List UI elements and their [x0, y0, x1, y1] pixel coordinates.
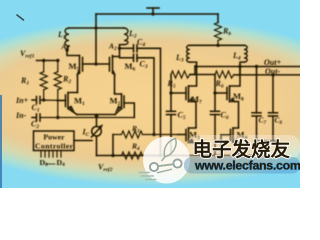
node Rb tap	[216, 44, 219, 47]
node R1 top	[42, 59, 45, 62]
wire cap ground drop	[264, 141, 266, 156]
inductor L2	[120, 28, 129, 48]
node tail	[95, 114, 99, 118]
wire current source to Vref2 node	[96, 137, 98, 156]
capacitor C7	[252, 67, 261, 142]
svg-text:In+: In+	[15, 96, 29, 105]
resistor R4	[113, 152, 221, 159]
node A2	[118, 47, 121, 50]
capacitor C8	[269, 75, 278, 141]
wire source bar	[77, 114, 115, 116]
capacitor C5	[167, 93, 176, 156]
svg-text:Power: Power	[43, 133, 65, 142]
node junction rail/bar	[94, 26, 97, 29]
svg-text:Out-: Out-	[265, 67, 280, 76]
transistor M7	[171, 67, 197, 128]
capacitor C4	[120, 45, 161, 156]
resistor R6	[215, 71, 234, 78]
wire R5 right to Out	[190, 67, 195, 75]
node cascode gate bias	[94, 62, 97, 65]
node M8 drain	[238, 65, 241, 68]
wire Out+ line	[195, 66, 300, 68]
wire Rb drop	[217, 14, 219, 23]
transistor M1	[57, 93, 78, 115]
wire Vref2 riser	[112, 135, 114, 156]
inductor L4	[240, 45, 247, 66]
node C8 tap	[271, 73, 274, 76]
resistor Rb	[215, 23, 222, 46]
wire D control lines	[41, 151, 61, 158]
watermark logo circle	[139, 137, 191, 184]
wire Out- line	[234, 74, 300, 76]
left edge artifact	[0, 95, 2, 188]
wire tail to current source	[96, 115, 98, 127]
capacitor C1	[32, 97, 66, 104]
node M7 gate	[169, 91, 172, 94]
resistor R3	[113, 131, 178, 138]
scratch artifact	[17, 15, 24, 20]
svg-text:In-: In-	[15, 111, 27, 120]
capacitor C3	[120, 54, 155, 134]
svg-text:Controller: Controller	[35, 142, 74, 151]
inductor L1	[65, 28, 69, 50]
node C4 tap	[159, 154, 162, 157]
node M8 gate	[213, 91, 216, 94]
wire center bias riser	[95, 14, 97, 64]
node M7 drain	[194, 65, 197, 68]
wire R5-R6 link	[190, 74, 215, 76]
transistor M8	[215, 67, 240, 128]
node C3 tap	[152, 133, 155, 136]
transistor M3	[178, 128, 196, 156]
resistor R5	[171, 71, 190, 78]
supply T symbol	[147, 8, 159, 16]
transistor M6	[96, 48, 120, 92]
resistor R1	[40, 61, 47, 100]
transistor M4	[221, 128, 239, 156]
power controller box	[34, 131, 75, 151]
wire Ic control	[74, 140, 92, 142]
resistor R2	[54, 61, 61, 118]
transistor M2	[115, 93, 135, 118]
wire L3-L4 top bar	[189, 44, 245, 46]
wire R4 to M4 gate	[220, 135, 222, 156]
svg-text:Out+: Out+	[264, 58, 281, 67]
wire R6 right to M8 drain	[238, 67, 240, 75]
wire Vref1 bias	[37, 60, 58, 62]
wire VDD rail	[96, 13, 218, 15]
wire R6 left drop	[214, 75, 216, 94]
svg-text:..........: ..........	[46, 161, 56, 167]
wire R5 left drop	[170, 75, 172, 94]
node R4 left	[111, 154, 114, 157]
wire ground rail	[97, 155, 265, 157]
node In- R2	[56, 116, 59, 119]
watermark blue band	[184, 157, 300, 174]
watermark white glow	[187, 135, 300, 159]
transistor M5	[67, 50, 96, 93]
svg-text:www.elecfans.com: www.elecfans.com	[194, 159, 300, 173]
node C7 tap	[255, 65, 258, 68]
inductor L3	[187, 45, 197, 66]
current source Ic	[92, 124, 104, 137]
node A1	[65, 48, 68, 51]
node R2 top	[56, 59, 59, 62]
capacitor C6	[211, 93, 220, 156]
node In+ R1	[42, 98, 45, 101]
wire C7-C8 bottom bar	[254, 140, 276, 142]
wire L1-L2 top bar	[69, 27, 124, 29]
capacitor C2	[32, 114, 134, 121]
